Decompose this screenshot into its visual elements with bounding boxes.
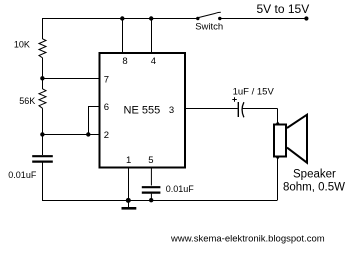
svg-text:10K: 10K [14, 40, 30, 50]
svg-text:0.01uF: 0.01uF [166, 184, 195, 194]
svg-text:8: 8 [122, 56, 127, 67]
svg-text:3: 3 [169, 105, 174, 116]
svg-text:Speaker: Speaker [293, 168, 336, 180]
svg-text:2: 2 [104, 130, 109, 141]
svg-text:www.skema-elektronik.blogspot.: www.skema-elektronik.blogspot.com [170, 233, 325, 244]
svg-text:8ohm, 0.5W: 8ohm, 0.5W [283, 181, 345, 193]
svg-text:Switch: Switch [195, 21, 223, 32]
svg-text:1: 1 [126, 155, 131, 166]
svg-text:NE 555: NE 555 [124, 104, 161, 116]
svg-text:5V to 15V: 5V to 15V [257, 2, 310, 16]
svg-text:5: 5 [148, 155, 153, 166]
svg-text:56K: 56K [19, 96, 35, 106]
svg-text:4: 4 [151, 56, 156, 67]
svg-text:1uF / 15V: 1uF / 15V [233, 86, 275, 97]
svg-text:0.01uF: 0.01uF [8, 170, 37, 180]
svg-text:6: 6 [104, 102, 109, 113]
svg-text:7: 7 [104, 75, 109, 86]
